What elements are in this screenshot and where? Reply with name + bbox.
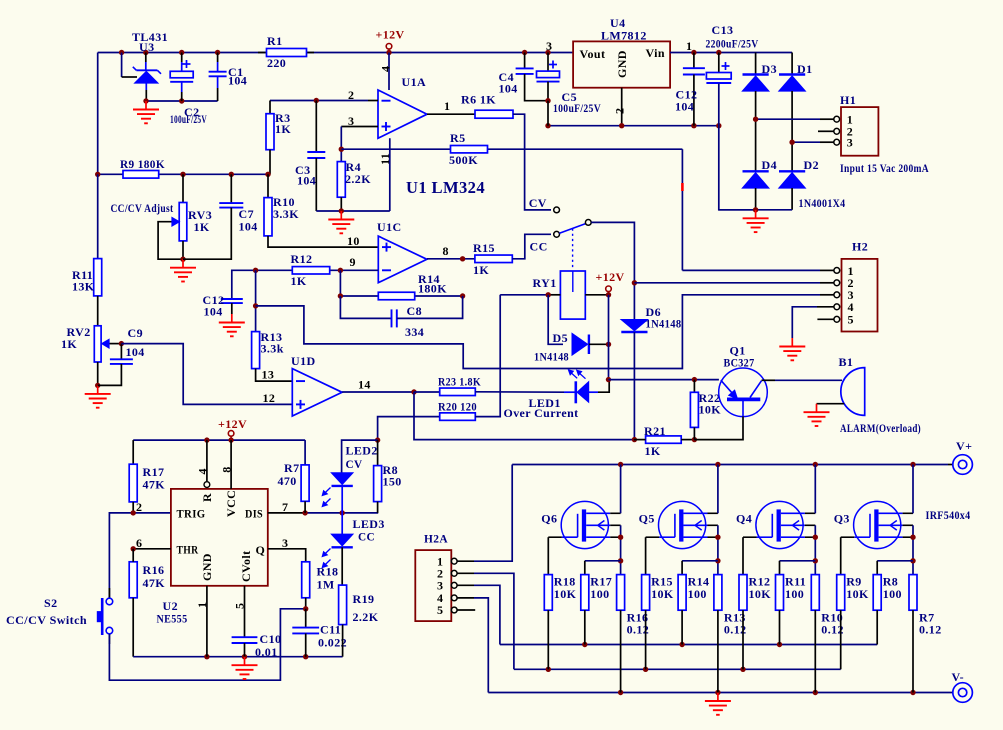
big label U1 LM324 <box>406 178 485 197</box>
wire H2 pin4 to ground <box>792 307 834 338</box>
ground under H2 pin4 <box>779 338 805 360</box>
svg-text:104: 104 <box>228 74 247 88</box>
timer U2 NE555 box <box>157 489 268 626</box>
svg-text:+12V: +12V <box>376 28 405 42</box>
ground under R4 <box>328 211 354 233</box>
svg-text:Vin: Vin <box>646 46 665 60</box>
pin label 7 (U2) <box>282 500 288 514</box>
resistor R14 180K <box>378 272 447 300</box>
wire +12V column to LED1 row <box>606 295 611 383</box>
wire switch common to H2 pin2 node <box>591 222 634 282</box>
pin label 2 (U1A) <box>348 88 354 102</box>
svg-text:BC327: BC327 <box>724 356 755 370</box>
label CC contact <box>530 240 548 254</box>
svg-text:1: 1 <box>195 602 209 608</box>
wire R14 feedback row <box>338 270 466 298</box>
wire Q5 source node <box>715 525 720 574</box>
wire pin5 CVolt <box>244 586 246 637</box>
svg-text:Q6: Q6 <box>541 511 557 525</box>
power port +12V (top) <box>376 28 405 53</box>
wire H1 pin2 stub <box>818 130 834 132</box>
capacitor C3 104 <box>295 101 325 212</box>
resistor R17 47K <box>129 440 165 513</box>
wire U1A output to R6 <box>427 113 475 115</box>
ground near TL431 <box>133 101 159 123</box>
wire U1C pin10 input <box>268 236 378 247</box>
wire V+ rail <box>512 462 953 467</box>
resistor R22 10K <box>690 380 721 440</box>
svg-text:TRIG: TRIG <box>177 506 206 520</box>
op-amp U1A <box>378 75 427 138</box>
svg-text:5: 5 <box>233 603 247 609</box>
ERC marker red tick <box>681 183 684 191</box>
pin label 9 (U1C) <box>350 255 356 269</box>
resistor R20 120 <box>378 295 501 440</box>
wire R9/RV3/C7/R10 row <box>95 172 271 177</box>
wire ground rail under U4 <box>545 123 721 128</box>
svg-text:3.3k: 3.3k <box>261 342 284 356</box>
svg-text:RY1: RY1 <box>533 276 557 290</box>
svg-text:5: 5 <box>848 313 854 327</box>
LED LED1 Over Current <box>504 370 610 420</box>
svg-text:CVolt: CVolt <box>239 550 253 582</box>
svg-text:R7: R7 <box>284 461 299 475</box>
diode D5 1N4148 <box>534 295 611 364</box>
switch S2 CC/CV <box>6 596 113 635</box>
contact circle CC <box>554 231 560 237</box>
wire R6 to CV contact <box>513 114 551 210</box>
svg-text:1K: 1K <box>291 274 307 288</box>
resistor R7 470 <box>278 440 310 513</box>
svg-text:THR: THR <box>177 542 199 556</box>
wire R23 to LED1 <box>475 391 576 393</box>
svg-text:2: 2 <box>613 108 627 114</box>
svg-text:IRF540x4: IRF540x4 <box>926 508 971 522</box>
op-amp U1C <box>377 220 427 283</box>
svg-text:R: R <box>200 493 214 502</box>
svg-text:0.12: 0.12 <box>919 623 942 637</box>
capacitor C8 334 <box>340 296 462 339</box>
wire H2 pin1 row <box>682 269 834 271</box>
resistor R12 10K (gate) <box>739 575 771 670</box>
svg-text:10K: 10K <box>651 587 674 601</box>
svg-text:180K: 180K <box>418 282 447 296</box>
svg-text:V-: V- <box>952 670 965 684</box>
diode D2 1N4001 <box>779 142 819 210</box>
wire S2 bottom to R18/C11 node <box>109 609 305 680</box>
svg-text:3: 3 <box>546 39 552 53</box>
capacitor C2 100uF/25V <box>170 53 207 127</box>
svg-text:470: 470 <box>278 474 297 488</box>
wire pin8 VCC <box>230 440 232 489</box>
resistor R16 47K <box>129 549 165 657</box>
svg-text:104: 104 <box>126 345 145 359</box>
svg-text:Q4: Q4 <box>736 511 752 525</box>
svg-text:100: 100 <box>883 587 902 601</box>
wire H2A pin3 to 100ohm bus <box>457 585 500 644</box>
resistor R15 10K (gate) <box>642 575 674 670</box>
connector H2 <box>834 240 878 332</box>
svg-text:1M: 1M <box>317 578 335 592</box>
resistor R11 100 <box>776 561 816 645</box>
resistor R7 0.12 <box>909 575 942 693</box>
svg-text:1N4148: 1N4148 <box>534 350 569 364</box>
resistor R13 0.12 <box>714 575 747 693</box>
pin label 8 (U1C out) <box>443 244 449 258</box>
svg-text:CC/CV Switch: CC/CV Switch <box>6 613 87 627</box>
wire U1D output node <box>342 389 634 439</box>
svg-text:LM7812: LM7812 <box>601 29 647 43</box>
pin label 4 (U2) <box>196 468 210 474</box>
wire H2A pin2 to gate bus <box>457 573 514 669</box>
resistor R23 1.8K <box>414 375 481 396</box>
ground under bridge <box>743 210 769 232</box>
wire NE555 +12V rail <box>133 437 305 442</box>
svg-text:12: 12 <box>263 391 276 405</box>
label CV contact <box>529 196 547 210</box>
svg-text:1N4001X4: 1N4001X4 <box>799 196 846 210</box>
svg-text:100uF/25V: 100uF/25V <box>553 101 601 115</box>
wire U4 GND pin to ground rail <box>621 88 623 126</box>
pin label 3 (U2) <box>282 536 288 550</box>
svg-text:CC: CC <box>530 240 548 254</box>
svg-text:Q: Q <box>256 543 266 557</box>
capacitor C10 0.01 <box>232 632 282 659</box>
wire Q pin3 to R18 <box>268 549 306 562</box>
wire CV sense staircase to H2 pin3 <box>256 295 834 369</box>
resistor R9 10K (gate) <box>837 575 869 670</box>
capacitor C11 0.022 <box>292 609 347 657</box>
ground under C12 mid <box>219 314 245 336</box>
resistor R10 3.3K <box>264 174 299 236</box>
resistor R4 2.2K <box>337 160 371 211</box>
svg-text:U1D: U1D <box>291 354 316 368</box>
svg-text:R5: R5 <box>450 131 465 145</box>
resistor R18 10K (gate) <box>544 575 576 670</box>
svg-text:Q3: Q3 <box>834 511 850 525</box>
svg-text:1K: 1K <box>61 337 77 351</box>
svg-text:R20 120: R20 120 <box>438 400 477 414</box>
svg-text:R21: R21 <box>644 424 666 438</box>
svg-text:+12V: +12V <box>218 417 247 431</box>
diode D4 1N4001 <box>743 119 777 210</box>
svg-text:B1: B1 <box>839 355 854 369</box>
svg-text:6: 6 <box>136 536 142 550</box>
svg-text:500K: 500K <box>449 153 478 167</box>
svg-text:H1: H1 <box>840 93 856 107</box>
wire V- rail <box>488 690 953 695</box>
power port +12V (relay) <box>596 270 625 297</box>
svg-text:100: 100 <box>688 587 707 601</box>
svg-text:3.3K: 3.3K <box>273 207 299 221</box>
svg-text:1K: 1K <box>473 263 489 277</box>
wire Q5 drain to V+ <box>717 465 719 514</box>
wire H2A pin5 stub <box>457 609 475 611</box>
svg-text:10: 10 <box>347 234 360 248</box>
pin label 1 (U2) <box>195 602 209 608</box>
resistor R21 1K <box>634 424 697 458</box>
wire U4 Vin to bridge <box>670 50 792 55</box>
svg-text:D1: D1 <box>797 62 812 76</box>
wire Q6 gate lead <box>547 537 549 574</box>
svg-text:14: 14 <box>358 378 371 392</box>
wire overcurrent row to Q1 <box>609 377 719 382</box>
resistor R13 3.3k <box>252 330 284 369</box>
svg-text:R1: R1 <box>267 34 282 48</box>
wire TL431/C2/C1 ground rail <box>143 98 217 103</box>
svg-text:10K: 10K <box>749 587 772 601</box>
wire 100ohm bus rail <box>500 642 877 647</box>
svg-text:104: 104 <box>204 305 223 319</box>
relay RY1 <box>533 271 609 319</box>
wire R21 row junctions <box>375 437 380 442</box>
transistor Q6 IRF540 <box>541 501 620 548</box>
svg-text:R9 180K: R9 180K <box>120 157 165 171</box>
wire R12 row to U1C pin9 <box>253 268 378 273</box>
wire U1A pin3 input <box>339 127 378 162</box>
svg-text:D5: D5 <box>553 331 568 345</box>
svg-text:U3: U3 <box>139 40 154 54</box>
svg-text:R15: R15 <box>473 241 495 255</box>
svg-text:Vout: Vout <box>580 47 606 61</box>
junction dots on top bus <box>119 50 551 55</box>
switch blade CV/CC <box>559 224 585 234</box>
svg-text:D4: D4 <box>762 158 777 172</box>
svg-text:Input 15 Vac 200mA: Input 15 Vac 200mA <box>840 161 929 175</box>
svg-text:2.2K: 2.2K <box>345 172 371 186</box>
capacitor C9 104 <box>98 326 145 385</box>
svg-text:220: 220 <box>267 56 286 70</box>
pin label 2 (U4 GND) <box>613 108 627 114</box>
svg-text:104: 104 <box>499 82 518 96</box>
svg-text:Over Current: Over Current <box>504 406 579 420</box>
capacitor C5 100uF/25V <box>537 53 602 126</box>
svg-text:3: 3 <box>847 136 853 150</box>
svg-text:R19: R19 <box>353 592 375 606</box>
wire Q1 collector to B1 <box>775 379 842 381</box>
pin label 2 (U2) <box>136 500 142 514</box>
wire Q3 gate lead <box>840 537 842 574</box>
svg-text:Q5: Q5 <box>639 511 655 525</box>
resistor R8 150 <box>374 440 402 513</box>
svg-text:100uF/25V: 100uF/25V <box>170 112 207 126</box>
capacitor C7 104 <box>183 174 258 259</box>
wire DIS pin7 row <box>268 510 378 515</box>
wire Q4 gate lead <box>742 537 744 574</box>
label CC/CV Adjust <box>111 201 174 215</box>
diode D1 1N4001 <box>779 53 812 143</box>
svg-text:1K: 1K <box>275 122 291 136</box>
dotted link switch to relay <box>572 229 574 270</box>
wire TRIG row <box>109 510 170 598</box>
pin stubs S2 (black) <box>108 588 110 644</box>
svg-text:U1A: U1A <box>402 75 427 89</box>
resistor R9 180K <box>120 157 165 178</box>
wire Q6 source node <box>618 525 623 574</box>
capacitor C13 2200uF/25V <box>706 23 759 210</box>
op-amp U1D <box>291 354 342 416</box>
svg-text:3: 3 <box>282 536 288 550</box>
wire U1A pin2 input <box>270 98 378 103</box>
capacitor C4 104 <box>499 53 549 101</box>
svg-text:10K: 10K <box>554 587 577 601</box>
connector H2A <box>415 532 457 622</box>
wire H2 pin5 stub <box>817 318 834 320</box>
svg-text:104: 104 <box>297 174 316 188</box>
wire U1A pin11 to ground rail <box>316 138 390 213</box>
svg-text:13K: 13K <box>72 280 95 294</box>
potentiometer RV3 1K <box>158 174 212 259</box>
junction dot RV3 bottom <box>180 257 185 262</box>
svg-text:CV: CV <box>346 457 363 471</box>
svg-text:D2: D2 <box>804 158 819 172</box>
ground under RV3 <box>170 259 196 281</box>
capacitor C12 104 (mid) <box>203 293 243 319</box>
svg-text:4: 4 <box>196 468 210 474</box>
wire relay left to R20 node <box>500 292 551 297</box>
svg-text:CV: CV <box>529 196 547 210</box>
wire Q6 drain to V+ <box>620 465 622 514</box>
resistor R5 500K <box>449 131 488 167</box>
wire R15 to CC contact <box>512 234 551 258</box>
svg-text:VCC: VCC <box>224 490 238 517</box>
svg-text:+12V: +12V <box>596 270 625 284</box>
ground under B1 <box>804 404 830 426</box>
ground on V- rail <box>705 693 731 715</box>
svg-text:H2A: H2A <box>424 532 448 546</box>
svg-text:1: 1 <box>444 99 450 113</box>
wire bridge bottom node <box>719 207 792 212</box>
wire Q3 source node <box>910 525 915 574</box>
svg-text:C13: C13 <box>712 23 734 37</box>
svg-text:47K: 47K <box>143 576 166 590</box>
svg-text:1N4148: 1N4148 <box>646 317 682 331</box>
buzzer B1 ALARM <box>817 355 922 435</box>
pin label 1 (U4 Vin) <box>686 39 692 53</box>
svg-text:V+: V+ <box>956 439 972 453</box>
LED LED2 CV <box>322 440 377 513</box>
voltage regulator U4 LM7812 box <box>573 16 670 88</box>
svg-text:7: 7 <box>282 500 288 514</box>
pin label 3 (U1A) <box>348 114 354 128</box>
pin label 12 (U1D) <box>263 391 276 405</box>
pin label 4 (U1A) <box>379 66 393 72</box>
capacitor C12 104 (input) <box>675 53 705 126</box>
resistor R11 13K <box>72 174 102 296</box>
terminal V+ <box>953 439 973 474</box>
svg-text:C9: C9 <box>128 326 143 340</box>
pin label 3 (U4 Vout) <box>546 39 552 53</box>
svg-text:R6 1K: R6 1K <box>461 93 496 107</box>
svg-text:150: 150 <box>383 475 402 489</box>
transistor Q3 IRF540 <box>834 501 913 548</box>
wire H2 pin2 row <box>634 282 834 284</box>
pin label 6 (U2) <box>136 536 142 550</box>
svg-text:47K: 47K <box>143 478 166 492</box>
wire U1D pin13 input <box>256 369 293 382</box>
svg-text:R23 1.8K: R23 1.8K <box>438 375 481 389</box>
resistor R15 1K <box>473 241 512 277</box>
wire C12 to R12 row <box>232 270 256 299</box>
wire pin4 reset <box>206 440 208 481</box>
diode D3 1N4001 <box>743 53 777 120</box>
svg-text:GND: GND <box>615 50 629 78</box>
junction dot RV2 bottom ground <box>95 383 100 388</box>
connector H1 <box>834 93 879 156</box>
terminal V- <box>952 670 973 702</box>
svg-text:8: 8 <box>443 244 449 258</box>
wire R5 CV feedback row <box>341 149 682 270</box>
resistor R19 2.2K <box>339 585 379 657</box>
svg-text:ALARM(Overload): ALARM(Overload) <box>840 421 921 435</box>
svg-text:1: 1 <box>686 39 692 53</box>
svg-text:10K: 10K <box>699 403 722 417</box>
wire R13/staircase vertical <box>253 270 258 331</box>
wire U1A pin4 supply <box>388 53 390 91</box>
wire U1C output to R15 <box>427 256 475 261</box>
potentiometer RV2 1K <box>61 296 121 386</box>
wire H2A pin1 to V+ rail <box>457 465 512 562</box>
wire H2A pin4 to V- rail <box>457 598 488 693</box>
ground under RV2 <box>85 385 111 407</box>
resistor R17 100 <box>581 561 621 645</box>
svg-text:8: 8 <box>220 466 234 472</box>
wire pin1 GND <box>206 586 208 657</box>
inverted pin circle pin4 <box>204 482 210 488</box>
svg-text:DIS: DIS <box>245 506 263 520</box>
resistor R14 100 <box>678 561 718 645</box>
svg-text:104: 104 <box>675 100 694 114</box>
pin label 1 (U1A out) <box>444 99 450 113</box>
resistor R16 0.12 <box>617 575 650 693</box>
svg-text:100: 100 <box>785 587 804 601</box>
svg-text:334: 334 <box>405 325 424 339</box>
transistor Q4 IRF540 <box>736 501 815 548</box>
wire top +12V bus <box>98 53 573 175</box>
wire 10K gate bus rail <box>514 667 841 672</box>
svg-text:C8: C8 <box>407 304 422 318</box>
LED LED3 CC <box>322 513 384 585</box>
resistor R18 1M <box>302 562 339 612</box>
regulator U3 TL431 <box>122 30 168 101</box>
resistor R12 1K <box>291 252 330 288</box>
resistor R1 220 <box>258 34 314 70</box>
transistor Q5 IRF540 <box>639 501 718 548</box>
label 1N4001X4 <box>799 196 846 210</box>
svg-text:S2: S2 <box>44 596 57 610</box>
pin label 8 (U2) <box>220 466 234 472</box>
resistor R8 100 <box>873 561 913 645</box>
svg-text:U1C: U1C <box>377 220 402 234</box>
svg-text:R12: R12 <box>291 252 313 266</box>
power port +12V (NE555) <box>218 417 247 440</box>
ground under C10 <box>232 657 258 679</box>
svg-text:0.01: 0.01 <box>255 645 278 659</box>
capacitor C1 104 <box>209 53 248 102</box>
svg-text:H2: H2 <box>852 240 868 254</box>
resistor R3 1K <box>266 101 291 175</box>
wire RV2 wiper to U1D pin12 (CV sense) <box>121 344 292 405</box>
svg-text:2: 2 <box>136 500 142 514</box>
contact circle CV <box>554 207 560 213</box>
svg-text:2.2K: 2.2K <box>353 610 379 624</box>
svg-text:LED2: LED2 <box>346 444 378 458</box>
svg-text:R16: R16 <box>143 563 165 577</box>
pin label 5 (U2) <box>233 603 247 609</box>
svg-text:D3: D3 <box>762 62 777 76</box>
svg-text:5: 5 <box>437 603 443 617</box>
svg-text:1K: 1K <box>194 220 210 234</box>
